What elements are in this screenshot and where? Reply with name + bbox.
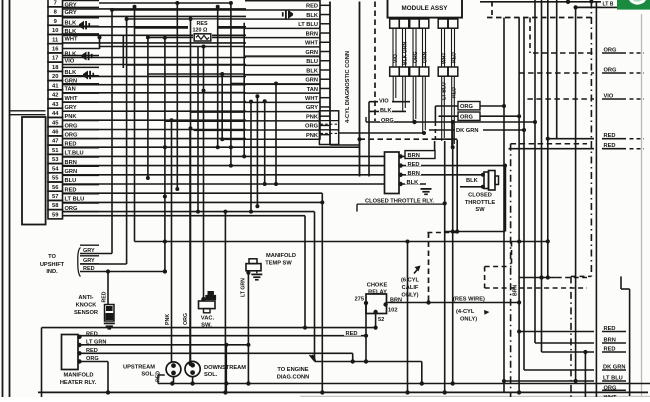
relay BLK row: [401, 178, 432, 195]
right label ORG bottom: [602, 384, 626, 391]
dash-dot vert 2: [571, 0, 594, 397]
svg-text:BLU: BLU: [306, 59, 318, 65]
left page border line: [2, 0, 4, 397]
svg-text:ORG: ORG: [381, 118, 394, 124]
manifold temp switch: [241, 253, 296, 384]
svg-text:CLOSED: CLOSED: [468, 193, 492, 199]
svg-text:LT B: LT B: [603, 1, 614, 7]
svg-text:TAN: TAN: [65, 87, 76, 93]
anti-knock sensor label: [74, 295, 98, 316]
svg-text:10: 10: [52, 28, 58, 34]
ECU connector pin-number column: [48, 0, 63, 219]
module assy pin connectors: [390, 19, 458, 76]
svg-text:MANIFOLD: MANIFOLD: [266, 253, 296, 259]
RES WIRE label: [453, 297, 485, 303]
svg-text:53: 53: [52, 157, 59, 163]
upshift RED wire: [80, 264, 167, 274]
vert down from U mid: [451, 229, 455, 385]
res wire row: [386, 302, 519, 304]
svg-text:SENSOR: SENSOR: [74, 310, 98, 316]
svg-text:BRN: BRN: [306, 31, 318, 37]
module wire RED down: [451, 76, 455, 149]
svg-text:VIO: VIO: [65, 58, 75, 64]
right row RED: [542, 347, 627, 353]
closed throttle switch: [484, 171, 499, 191]
svg-text:ORG: ORG: [460, 104, 474, 110]
right row BRN: [535, 338, 626, 344]
svg-text:BLK: BLK: [380, 108, 392, 114]
svg-text:41: 41: [52, 83, 59, 89]
ground G3 (pin 20 BLK): [83, 71, 94, 80]
svg-text:TEMP SW: TEMP SW: [265, 261, 292, 267]
ground G4 (diag BLK): [282, 10, 293, 19]
top row 1: [480, 0, 618, 4]
vacuum switch: [199, 291, 217, 329]
dashed horizontal top: [487, 17, 591, 19]
svg-text:GRN: GRN: [423, 51, 429, 63]
svg-text:GRN: GRN: [305, 50, 318, 56]
vert bus d: [533, 0, 537, 343]
svg-text:WHT: WHT: [65, 96, 78, 102]
dashed vert to res wire: [426, 233, 430, 305]
svg-text:ORG: ORG: [413, 51, 419, 63]
svg-text:BRN: BRN: [513, 285, 519, 296]
svg-text:BLK: BLK: [466, 178, 479, 184]
module pin labels: [393, 41, 458, 65]
heater RED row 2: [80, 353, 353, 361]
right label VIO: [527, 94, 644, 100]
6cyl calif label: [401, 266, 421, 299]
svg-text:ORG: ORG: [305, 124, 319, 130]
ORG wire row: [366, 116, 535, 125]
svg-text:275: 275: [355, 297, 365, 303]
svg-text:PNK: PNK: [65, 114, 78, 120]
svg-text:WHT: WHT: [305, 41, 318, 47]
vert bus f: [546, 0, 550, 280]
svg-text:LT GRN: LT GRN: [241, 278, 247, 297]
svg-text:ORG: ORG: [460, 115, 474, 121]
ground G2 (pin 16 BLK): [82, 52, 93, 61]
svg-text:45: 45: [52, 120, 59, 126]
svg-text:GRN: GRN: [305, 78, 318, 84]
svg-text:VAC.: VAC.: [201, 316, 215, 322]
choke 52 wire: [374, 312, 378, 330]
svg-text:GRY: GRY: [306, 105, 318, 111]
extra junction dots: [163, 89, 206, 244]
svg-text:18: 18: [52, 65, 59, 71]
module assy box: [388, 0, 463, 18]
svg-text:RES: RES: [197, 21, 208, 27]
module wire ORG down: [412, 76, 416, 124]
svg-text:SOL.: SOL.: [204, 372, 218, 378]
left page border line 2: [9, 0, 11, 397]
svg-text:RED: RED: [408, 162, 420, 168]
right label ORG 2: [519, 68, 644, 74]
svg-text:UPSHIFT: UPSHIFT: [40, 262, 65, 268]
svg-text:16: 16: [52, 47, 59, 53]
row 133 to GRN pin: [338, 132, 424, 134]
VIO wire row: [369, 96, 410, 177]
DK GRN right row: [429, 126, 524, 135]
ORG wire vertical: [183, 128, 190, 361]
resistor RES 120 ohm: [188, 20, 217, 42]
svg-text:ORG: ORG: [183, 313, 189, 325]
heater relay pins: [77, 331, 106, 363]
dashed row 278: [557, 277, 587, 279]
right label LT BLU: [504, 376, 626, 382]
svg-text:47: 47: [52, 139, 58, 145]
left wire-color label column: [63, 0, 99, 212]
svg-text:CHOKE: CHOKE: [367, 283, 388, 289]
svg-text:BLK GRN: BLK GRN: [403, 41, 409, 65]
manifold heater relay box: [60, 335, 97, 386]
bus 391 bottom: [38, 390, 648, 394]
svg-text:120 Ω: 120 Ω: [193, 28, 208, 34]
dashed vert stair: [529, 18, 531, 54]
svg-text:58: 58: [52, 203, 59, 209]
svg-text:102: 102: [388, 308, 398, 314]
svg-text:CLOSED THROTTLE RLY.: CLOSED THROTTLE RLY.: [365, 198, 434, 204]
ground G1 (pin 9/10 BLK): [79, 21, 90, 30]
right label RED 2: [509, 143, 645, 149]
dashed vertical left of diag bracket: [374, 2, 376, 122]
svg-text:59: 59: [52, 212, 59, 218]
svg-text:WHT: WHT: [65, 37, 78, 43]
module wire LT BLU down: [442, 76, 445, 141]
row 277: [519, 275, 557, 279]
svg-text:56: 56: [52, 185, 59, 191]
green badge top right: [617, 0, 650, 10]
svg-text:DIAG.CONN: DIAG.CONN: [277, 375, 310, 381]
vert bus h: [574, 5, 578, 383]
svg-text:UPSTREAM: UPSTREAM: [123, 365, 155, 371]
heater LT GRN row: [80, 343, 251, 393]
svg-text:DOWNSTREAM: DOWNSTREAM: [204, 365, 246, 371]
svg-text:IND.: IND.: [46, 269, 58, 275]
diag connector title: [345, 51, 351, 123]
upshift GRY wire 1: [80, 245, 112, 254]
svg-text:ANTI-: ANTI-: [78, 295, 93, 301]
svg-text:BRN: BRN: [408, 153, 420, 159]
svg-text:ONLY): ONLY): [460, 317, 477, 323]
svg-text:ONLY): ONLY): [401, 293, 418, 299]
diag connector bracket: [330, 2, 360, 177]
dashed row 143: [511, 143, 587, 145]
choke 275 wire: [364, 303, 368, 362]
svg-text:SW: SW: [475, 207, 485, 213]
svg-text:RED: RED: [102, 291, 108, 302]
vert bus a: [502, 18, 506, 393]
svg-text:RED: RED: [306, 4, 318, 10]
svg-text:(RES WIRE): (RES WIRE): [453, 297, 485, 303]
svg-text:ORG: ORG: [65, 132, 79, 138]
svg-text:PNK: PNK: [306, 133, 319, 139]
LT B label: [601, 0, 617, 7]
to engine diag conn label: [277, 367, 310, 381]
svg-text:11: 11: [52, 37, 59, 43]
svg-text:54: 54: [52, 166, 59, 172]
svg-text:THROTTLE: THROTTLE: [465, 200, 496, 206]
relay BRN row 2: [401, 169, 485, 177]
svg-text:WHT: WHT: [442, 52, 448, 64]
upstream solenoid: [123, 362, 181, 384]
svg-text:44: 44: [52, 111, 59, 117]
svg-text:RED: RED: [452, 52, 458, 63]
ECU connector body: [22, 117, 46, 225]
relay RED row: [401, 159, 508, 231]
svg-text:LT BLU: LT BLU: [298, 22, 318, 28]
svg-text:WHT: WHT: [305, 96, 318, 102]
svg-text:42: 42: [52, 93, 58, 99]
svg-text:DK GRN: DK GRN: [456, 128, 478, 134]
dashed staircase: [485, 242, 587, 289]
downstream solenoid: [185, 361, 246, 383]
svg-text:4-CYL DIAGNOSTIC CONN: 4-CYL DIAGNOSTIC CONN: [345, 51, 351, 123]
svg-text:55: 55: [52, 176, 59, 182]
module wire GRN down: [422, 76, 426, 135]
bus1 horizontal: [42, 326, 376, 397]
svg-text:GRY: GRY: [65, 10, 77, 16]
PNK wire vertical: [165, 120, 172, 362]
relay BRN label: [401, 122, 453, 232]
svg-text:BRN: BRN: [408, 171, 420, 177]
svg-text:17: 17: [52, 56, 58, 62]
svg-text:46: 46: [52, 129, 59, 135]
dashed row mid: [357, 137, 435, 141]
svg-text:7: 7: [54, 0, 57, 6]
row to choke: [315, 359, 424, 385]
dashed 6cyl corner: [427, 229, 459, 233]
svg-text:TAN: TAN: [307, 87, 318, 93]
ORG right row 2: [439, 112, 520, 121]
svg-text:(6 CYL: (6 CYL: [401, 278, 420, 284]
label TO UPSHIFT IND: [40, 248, 81, 277]
right label DK GRN: [524, 365, 626, 371]
svg-text:TO: TO: [48, 254, 56, 260]
svg-text:BLK: BLK: [306, 68, 319, 74]
closed throttle relay box: [385, 152, 400, 194]
heater RED row: [80, 329, 367, 337]
svg-text:PNK: PNK: [165, 314, 171, 325]
closed throttle relay label: [357, 198, 445, 211]
connector body tab: [10, 111, 46, 115]
svg-text:20: 20: [52, 74, 58, 80]
sw lower U wiring: [435, 139, 505, 394]
svg-text:57: 57: [52, 194, 58, 200]
svg-text:MODULE ASSY: MODULE ASSY: [402, 5, 449, 12]
module wire VIO down: [393, 76, 396, 102]
dashed corner top right of module: [491, 2, 493, 18]
right row RED 331: [519, 326, 626, 332]
svg-text:KNOCK: KNOCK: [76, 303, 98, 309]
svg-text:PNK: PNK: [306, 114, 319, 120]
right scan edge: [641, 14, 643, 397]
vert bus i: [595, 2, 597, 397]
svg-text:BLK: BLK: [65, 51, 78, 57]
upper wire rows from left connector: [63, 1, 320, 139]
svg-text:SOL.: SOL.: [141, 372, 155, 378]
svg-text:RED: RED: [346, 331, 358, 337]
BLK wire row: [369, 106, 406, 114]
svg-text:BLK: BLK: [306, 13, 319, 19]
diagnostic connector label column: [245, 0, 330, 140]
relay pin dots: [398, 154, 402, 186]
svg-text:43: 43: [52, 102, 59, 108]
svg-text:GRY: GRY: [65, 105, 77, 111]
svg-text:VIO: VIO: [393, 54, 399, 63]
right label RED 1: [548, 133, 644, 139]
upshift GRY wire 2: [80, 256, 127, 264]
svg-text:CALIF: CALIF: [402, 285, 419, 291]
vert bus c: [522, 18, 526, 371]
svg-text:51: 51: [52, 148, 59, 154]
lower-left wire rows: [63, 145, 385, 392]
module wire BLK GRN down: [403, 76, 406, 111]
ORG right row 1: [435, 102, 504, 140]
svg-text:ORG: ORG: [65, 123, 79, 129]
choke relay: [355, 283, 402, 324]
svg-text:MANIFOLD: MANIFOLD: [63, 372, 93, 378]
svg-text:HEATER RLY.: HEATER RLY.: [60, 380, 97, 386]
vert bus g: [556, 0, 558, 139]
closed throttle sw label: [465, 193, 496, 214]
diagnostic connector wires running left: [100, 10, 252, 139]
vert bus e: [541, 0, 543, 352]
4cyl only label: [456, 309, 490, 323]
row 241: [135, 240, 548, 393]
heater ORG row: [80, 362, 109, 393]
bottom scan edge: [300, 395, 650, 397]
svg-text:VIO: VIO: [379, 99, 389, 105]
bus 382: [158, 375, 650, 386]
svg-text:(4-CYL: (4-CYL: [456, 309, 475, 315]
diag connector extra pin boxes: [319, 111, 338, 145]
right edge step: [583, 276, 629, 397]
anti-knock sensor: [102, 272, 115, 330]
svg-text:TO ENGINE: TO ENGINE: [277, 367, 308, 373]
svg-text:BLK: BLK: [407, 180, 420, 186]
right label ORG 1: [533, 48, 644, 54]
svg-text:52: 52: [378, 317, 384, 323]
right label WHT cut: [604, 395, 617, 401]
closed throttle sw BLK label: [460, 178, 485, 189]
dash-dot vert 1: [510, 144, 512, 397]
module lower pin labels: [442, 82, 458, 100]
top row 2: [576, 6, 618, 8]
vert bus b: [513, 18, 522, 393]
TO ENGINE wire arrowhead: [310, 355, 317, 362]
cascade verticals: [98, 1, 279, 366]
